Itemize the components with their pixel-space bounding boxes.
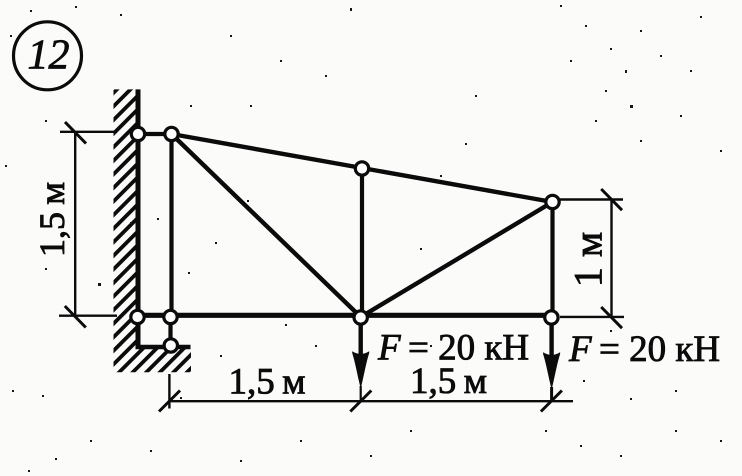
- node A wall top: [131, 127, 144, 140]
- svg-text:1 м: 1 м: [566, 232, 611, 287]
- node B top left: [165, 127, 178, 140]
- node top right: [546, 195, 559, 208]
- right dimension tick top: [601, 189, 622, 210]
- force arrow 2 tail: [550, 387, 553, 402]
- force arrow 1 head: [352, 351, 369, 388]
- node top middle: [355, 162, 368, 175]
- left dimension tick top: [65, 122, 86, 144]
- bottom dimension line: [169, 400, 573, 402]
- left dimension tick bottom: [65, 306, 86, 328]
- right dimension extension top: [560, 198, 623, 200]
- node bottom middle: [354, 311, 367, 324]
- bottom dimension extension left: [168, 374, 170, 409]
- force arrow 2 head: [543, 352, 560, 389]
- bottom dimension tick middle: [350, 391, 371, 412]
- left dimension extension bottom: [59, 315, 117, 317]
- svg-text:1,5 м: 1,5 м: [32, 182, 72, 257]
- diagonal B to bottom-mid: [172, 134, 361, 317]
- vertical member right: [550, 202, 554, 317]
- vertical member B-D: [169, 134, 173, 317]
- support ledge line: [136, 345, 191, 350]
- svg-text:F = 20 кН: F = 20 кН: [568, 329, 720, 370]
- right dimension extension bottom: [560, 316, 624, 318]
- bottom dimension tick right: [541, 391, 562, 412]
- top chord B to right node: [172, 134, 553, 202]
- node E support: [164, 339, 177, 352]
- right dimension tick bottom: [601, 307, 622, 328]
- svg-text:F = 20 кН: F = 20 кН: [377, 328, 529, 369]
- vertical member D-E: [168, 317, 172, 346]
- left dimension line: [74, 132, 76, 316]
- bottom chord: [138, 313, 553, 318]
- node C wall bottom: [131, 310, 144, 323]
- member A-B top: [138, 132, 172, 136]
- diagonal bottom-mid to top-right: [361, 202, 553, 317]
- force arrow 1 tail: [360, 386, 362, 401]
- bottom dimension tick left: [159, 391, 180, 412]
- wall hatching: [114, 89, 192, 372]
- left dimension extension top: [60, 131, 117, 133]
- svg-text:1,5 м: 1,5 м: [228, 362, 305, 403]
- node D bottom left: [164, 310, 177, 323]
- svg-text:12: 12: [28, 33, 70, 79]
- force arrow 2 shaft: [549, 318, 553, 373]
- node bottom right: [545, 311, 558, 324]
- wall edge line: [136, 89, 141, 348]
- vertical member mid: [360, 169, 364, 318]
- right dimension line: [610, 200, 612, 318]
- force arrow 1 shaft: [359, 317, 363, 372]
- problem number circle 12: [14, 22, 82, 90]
